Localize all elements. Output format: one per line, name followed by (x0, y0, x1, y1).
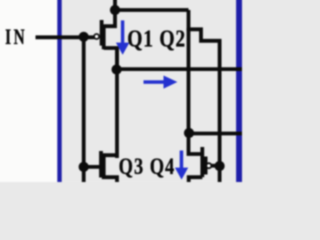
wire gate drop from IN node down to Q3 gate node (82, 37, 86, 182)
wire IN input (36, 35, 95, 39)
transistor Q4 gate bar (204, 157, 208, 175)
current arrow I1 down at Q1 drain (116, 20, 129, 54)
junction dot node A (Q1 drain) (112, 64, 122, 74)
wire VDD stub above rail node (113, 0, 117, 12)
white page margin left of box (0, 0, 58, 182)
junction dot Q4 gate on Q2 drain line (215, 161, 225, 171)
wire Q4 gate bubble to Q2 drain line (211, 164, 218, 168)
transistor Q1 channel bar (102, 25, 106, 50)
box border left (blue) (57, 0, 61, 182)
Q1 gate bubble white center (95, 35, 98, 38)
wire Q3 gate (84, 165, 100, 169)
transistor Q1 source lead from rail node (104, 10, 115, 26)
transistor Q3 gate bar (99, 151, 103, 178)
junction dot node B (Q2 source branch) (184, 128, 194, 138)
wire node B horizontal out to right edge (189, 132, 243, 136)
wire node A horizontal out to right edge (117, 67, 243, 71)
wire VDD branch down from rail to node B (187, 28, 191, 133)
transistor Q1 gate bar (100, 20, 104, 46)
wire node B down to Q4 (189, 133, 203, 155)
wire Q1 drain down to Q3 drain (115, 48, 119, 158)
transistor Q1 drain lead (104, 48, 117, 70)
svg-text:IN: IN (5, 25, 25, 49)
Q4 gate bubble white center (208, 164, 211, 167)
Q1 gate bubble (94, 34, 99, 39)
Q4 gate bubble (206, 163, 211, 168)
svg-text:Q3 Q4: Q3 Q4 (119, 153, 175, 180)
junction dot Q3 gate node (79, 162, 89, 172)
current arrow I3 right at node A (144, 76, 178, 89)
transistor Q4 source lead (189, 177, 203, 182)
page background inside box (0, 0, 242, 182)
svg-text:Q1 Q2: Q1 Q2 (127, 24, 185, 52)
transistor Q2 source lead, channel bar, drain lead and drain wire down (189, 10, 220, 182)
transistor Q3 drain lead, channel bar, source lead (104, 155, 117, 182)
box border right (blue) (236, 0, 242, 182)
junction dot VDD rail node (110, 5, 120, 15)
wire top rail (115, 8, 189, 12)
current arrow I2 down at Q4 (175, 151, 188, 180)
transistor Q4 channel bar (200, 147, 204, 177)
junction dot IN node (79, 32, 89, 42)
